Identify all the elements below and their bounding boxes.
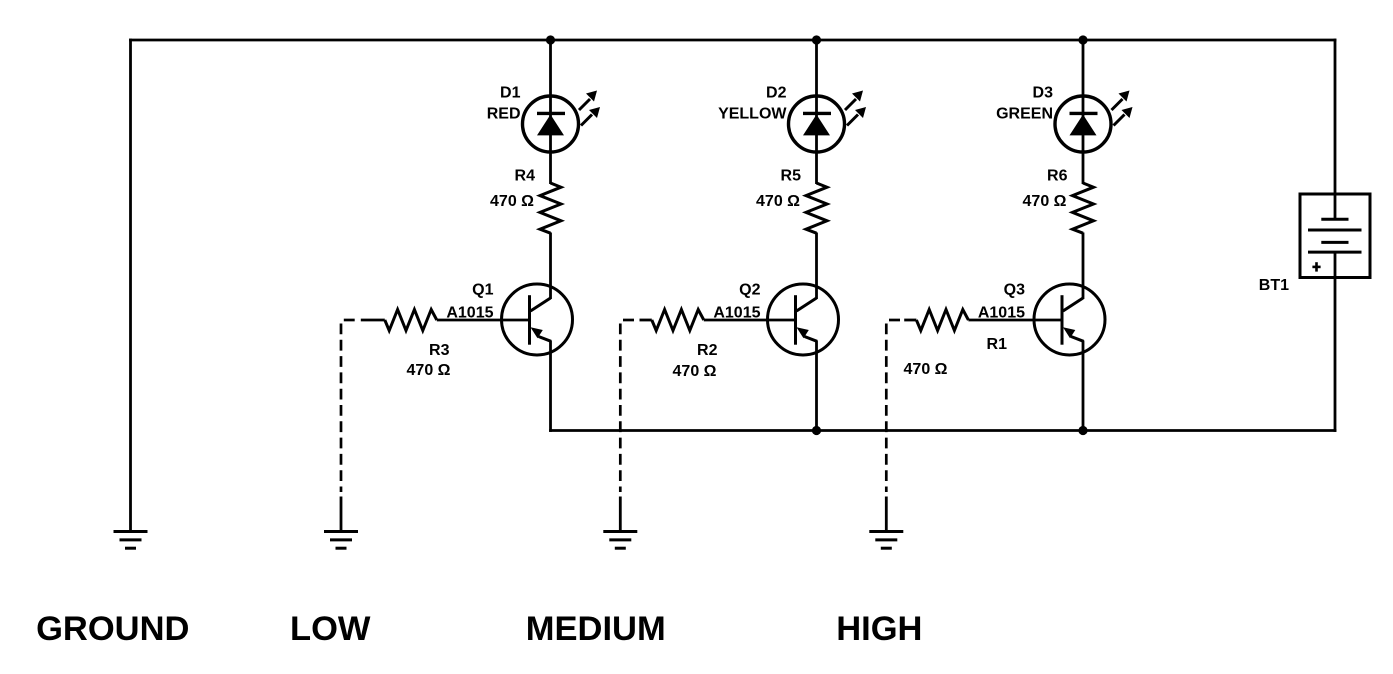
transistor Q1 emitter arrow (PNP) [531, 327, 543, 338]
transistor Q2 emitter lead [805, 337, 818, 342]
wire dashed probe input MEDIUM horizontal dash [623, 319, 634, 322]
resistor R6 zigzag [1073, 183, 1094, 233]
battery BT1 plate long (positive) 1 [1308, 229, 1362, 232]
wire dashed probe input LOW horizontal dash [344, 319, 355, 322]
LED D2 anode triangle [803, 115, 830, 136]
LED D1 light arrow 2 [581, 107, 600, 126]
wire base lead right of resistor R3 to base [437, 319, 531, 322]
wire top positive rail [129, 39, 1336, 42]
LED D2 light arrow 2 [847, 107, 866, 126]
node junction top rail column 3 [1078, 35, 1087, 44]
battery BT1 outline box [1300, 194, 1370, 278]
svg-text:YELLOW: YELLOW [718, 106, 787, 123]
svg-text:GROUND: GROUND [36, 610, 189, 648]
transistor Q2 emitter arrow (PNP) [797, 327, 809, 338]
wire probe HIGH ground stem [885, 497, 888, 532]
svg-text:470 Ω: 470 Ω [490, 193, 534, 210]
wire base lead left of resistor R2 [640, 319, 652, 322]
wire base lead right of resistor R1 to base [968, 319, 1063, 322]
base resistor R3 zigzag [385, 310, 437, 331]
wire column 1 from top rail through LED to resistor [549, 40, 552, 184]
wire right rail bottom segment (battery to bottom rail) [1334, 252, 1337, 432]
base resistor R2 zigzag [652, 310, 704, 331]
LED D1 circle [523, 96, 579, 152]
wire probe MEDIUM ground stem [619, 497, 622, 532]
wire column 3 from top rail through LED to resistor [1082, 40, 1085, 184]
wire base lead left of resistor R1 [904, 319, 916, 322]
wire column 2 from top rail through LED to resistor [815, 40, 818, 184]
resistor R4 zigzag [540, 183, 561, 233]
LED D1 anode triangle [537, 115, 564, 136]
wire dashed probe LOW vertical [340, 324, 343, 493]
svg-text:470 Ω: 470 Ω [904, 361, 948, 378]
svg-text:470 Ω: 470 Ω [1023, 193, 1067, 210]
resistor R5 zigzag [806, 183, 827, 233]
ground symbol LOW [324, 532, 358, 549]
svg-text:470 Ω: 470 Ω [756, 193, 800, 210]
node junction top rail column 2 [812, 35, 821, 44]
svg-text:R5: R5 [781, 168, 802, 185]
svg-text:R2: R2 [697, 342, 718, 359]
wire base lead left of resistor R3 [361, 319, 385, 322]
svg-text:Q3: Q3 [1004, 282, 1025, 299]
LED D2 cathode bar [803, 112, 831, 115]
LED D3 light arrow 2 [1114, 107, 1133, 126]
svg-text:RED: RED [487, 106, 521, 123]
transistor Q3 emitter lead [1071, 337, 1084, 342]
LED D3 anode triangle [1070, 115, 1097, 136]
LED D1 light arrow 1 [579, 91, 597, 111]
svg-text:Q1: Q1 [472, 282, 493, 299]
ground symbol HIGH [869, 532, 903, 549]
node junction bottom rail column 2 [812, 426, 821, 435]
wire column 1 transistor emitter to bottom rail [549, 341, 552, 432]
wire column 2 resistor to transistor collector [815, 233, 818, 300]
wire right rail top segment (battery to top rail) [1334, 39, 1337, 220]
transistor Q1 circle [502, 284, 573, 355]
LED D3 light arrow 1 [1112, 91, 1130, 111]
LED D3 circle [1055, 96, 1111, 152]
svg-text:R1: R1 [987, 336, 1008, 353]
LED D3 cathode bar [1070, 112, 1098, 115]
transistor Q2 collector lead [797, 298, 817, 311]
wire dashed probe MEDIUM vertical [619, 324, 622, 493]
svg-text:Q2: Q2 [739, 282, 760, 299]
wire probe LOW ground stem [340, 497, 343, 532]
wire column 3 transistor emitter to bottom rail [1082, 341, 1085, 432]
svg-text:470 Ω: 470 Ω [673, 363, 717, 380]
svg-text:HIGH: HIGH [836, 610, 922, 648]
LED D2 circle [789, 96, 845, 152]
svg-text:BT1: BT1 [1259, 277, 1289, 294]
wire column 2 transistor emitter to bottom rail [815, 341, 818, 432]
svg-text:D1: D1 [500, 85, 521, 102]
wire bottom rail [549, 429, 1336, 432]
transistor Q1 emitter lead [539, 337, 552, 342]
svg-text:MEDIUM: MEDIUM [526, 610, 666, 648]
wire left ground rail vertical [129, 39, 132, 531]
base resistor R1 zigzag [916, 310, 968, 331]
transistor Q3 circle [1034, 284, 1105, 355]
battery BT1 plate short (negative) 1 [1321, 218, 1348, 221]
ground symbol MEDIUM [603, 532, 637, 549]
transistor Q2 circle [768, 284, 839, 355]
battery BT1 plate long (positive) 2 [1308, 251, 1362, 254]
svg-text:R3: R3 [429, 342, 450, 359]
transistor Q3 collector lead [1063, 298, 1083, 311]
svg-text:R6: R6 [1047, 168, 1068, 185]
battery BT1 plate short (negative) 2 [1321, 241, 1348, 244]
svg-text:D3: D3 [1033, 85, 1054, 102]
battery BT1 plus sign [1312, 262, 1320, 271]
svg-text:GREEN: GREEN [996, 106, 1053, 123]
wire base lead right of resistor R2 to base [704, 319, 797, 322]
ground symbol GROUND rail [114, 532, 148, 549]
LED D1 cathode bar [537, 112, 565, 115]
transistor Q1 base bar [528, 295, 531, 345]
transistor Q1 collector lead [531, 298, 551, 311]
svg-text:R4: R4 [515, 168, 536, 185]
wire dashed probe HIGH vertical [885, 324, 888, 493]
node junction top rail column 1 [546, 35, 555, 44]
transistor Q3 base bar [1061, 295, 1064, 345]
svg-text:D2: D2 [766, 85, 787, 102]
wire column 1 resistor to transistor collector [549, 233, 552, 300]
wire dashed probe input HIGH horizontal dash [889, 319, 900, 322]
wire column 3 resistor to transistor collector [1082, 233, 1085, 300]
LED D2 light arrow 1 [845, 91, 863, 111]
svg-text:470 Ω: 470 Ω [407, 362, 451, 379]
transistor Q2 base bar [794, 295, 797, 345]
transistor Q3 emitter arrow (PNP) [1063, 327, 1075, 338]
svg-text:LOW: LOW [290, 610, 371, 648]
node junction bottom rail column 3 [1078, 426, 1087, 435]
